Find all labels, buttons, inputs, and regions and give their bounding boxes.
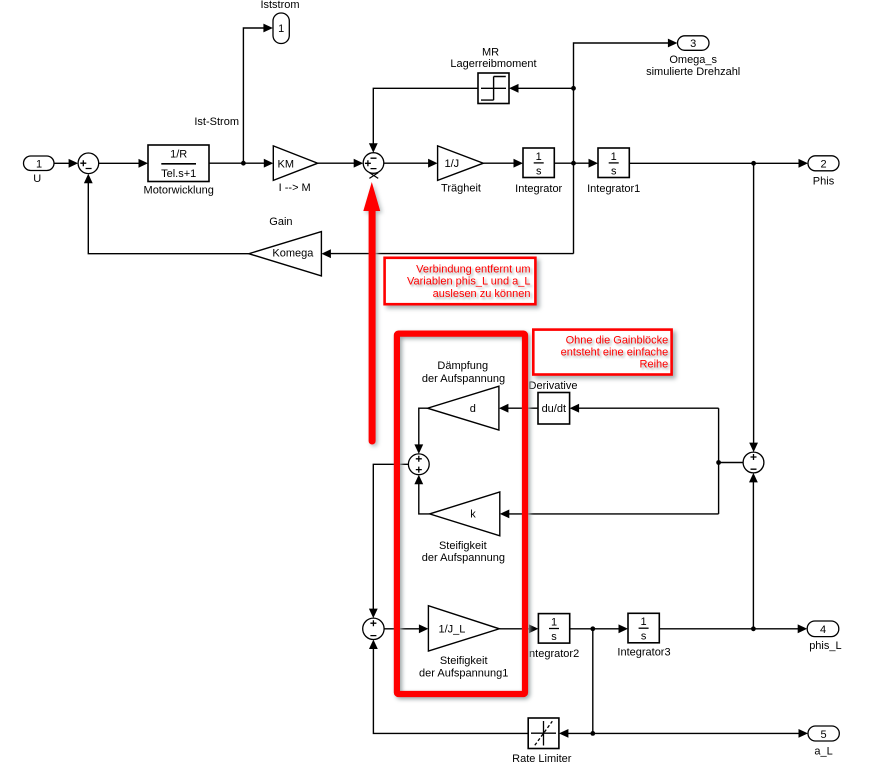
outport Iststrom	[260, 0, 299, 44]
transfer function Motorwicklung	[144, 145, 214, 197]
arrow into Iststrom port	[263, 24, 273, 33]
arrow into Integrator3	[619, 624, 629, 633]
svg-text:auslesen zu können: auslesen zu können	[433, 288, 531, 300]
svg-text:1: 1	[278, 23, 284, 35]
wire gain k output to sum3 bottom	[419, 482, 430, 514]
arrow into sum5 top	[749, 443, 758, 453]
wire U to sum1	[54, 162, 70, 164]
wire to port a_L	[593, 732, 801, 734]
wire sum5 output left	[719, 462, 744, 464]
svg-text:Integrator: Integrator	[515, 183, 562, 195]
svg-text:der Aufspannung: der Aufspannung	[422, 373, 505, 385]
svg-text:phis_L: phis_L	[809, 640, 841, 652]
arrow into sum1 left	[69, 159, 79, 168]
gain 1/J_L	[419, 606, 508, 680]
svg-text:s: s	[611, 165, 617, 177]
wire gain d output to sum3 top	[419, 408, 428, 446]
gain k Steifigkeit	[422, 492, 505, 564]
svg-text:1/R: 1/R	[170, 149, 187, 161]
inport 1 U	[24, 156, 55, 185]
wire 1/J to Integrator	[483, 162, 515, 164]
arrow into Motorwicklung	[139, 159, 149, 168]
wire to Rate Limiter input	[567, 732, 593, 734]
svg-text:Steifigkeit: Steifigkeit	[439, 540, 487, 552]
arrow into sum3 top	[414, 444, 423, 454]
ARROWHEADS	[69, 24, 808, 738]
svg-text:2: 2	[820, 159, 826, 171]
wire sum3 output to sum4 top	[373, 464, 408, 610]
svg-text:Motorwicklung: Motorwicklung	[144, 185, 214, 197]
svg-text:Reihe: Reihe	[640, 359, 669, 371]
sum block sum3	[408, 454, 429, 475]
svg-text:MR: MR	[482, 46, 499, 58]
gain KM	[273, 146, 317, 194]
wire vertical split for d and k	[718, 408, 720, 514]
svg-text:Omega_s: Omega_s	[669, 54, 717, 66]
wire Integrator1 to port Phis	[629, 162, 800, 164]
svg-text:Tel.s+1: Tel.s+1	[161, 168, 196, 180]
svg-text:1: 1	[36, 158, 42, 170]
svg-text:1/J: 1/J	[445, 158, 460, 170]
integrator Integrator1	[587, 148, 640, 195]
red arrow pointing to sum2	[363, 182, 380, 441]
wire MR output to sum2 top	[373, 88, 478, 145]
arrow into 1/J_L	[419, 624, 429, 633]
wire junction to Iststrom port	[243, 28, 264, 163]
svg-text:Rate Limiter: Rate Limiter	[512, 753, 572, 765]
svg-text:Derivative: Derivative	[529, 380, 578, 392]
arrow into gain d	[499, 404, 509, 413]
wire sum4 output to 1/J_L	[384, 628, 421, 630]
wire 1/J_L to Integrator2	[499, 628, 531, 630]
svg-text:Variablen phis_L und a_L: Variablen phis_L und a_L	[407, 276, 531, 288]
junction phis_L branch	[751, 626, 756, 631]
svg-text:Komega: Komega	[272, 247, 314, 259]
svg-text:U: U	[33, 173, 41, 185]
svg-text:3: 3	[690, 38, 696, 50]
red highlight rectangle around gain blocks	[397, 334, 525, 694]
wire sum2 to 1/J	[384, 162, 430, 164]
wire Motorwicklung to KM	[209, 162, 266, 164]
junction Ist-Strom	[241, 161, 246, 166]
sum block sum2	[363, 153, 384, 174]
svg-text:1/J_L: 1/J_L	[439, 624, 466, 636]
svg-text:Integrator2: Integrator2	[526, 648, 579, 660]
svg-text:1: 1	[536, 151, 542, 163]
svg-text:4: 4	[820, 624, 826, 636]
wire to Derivative input	[577, 407, 718, 409]
removed port x mark below sum2	[369, 173, 378, 179]
svg-text:Ohne die Gainblöcke: Ohne die Gainblöcke	[566, 334, 669, 346]
arrow into Rate Limiter	[559, 729, 569, 738]
outport 3 Omega_s	[646, 36, 740, 78]
svg-text:s: s	[536, 165, 542, 177]
arrow into sum2 top	[369, 143, 378, 153]
arrow into sum2 left	[354, 159, 364, 168]
svg-text:Trägheit: Trägheit	[441, 182, 481, 194]
wire feedback to Komega	[329, 253, 573, 255]
sum block sum4	[363, 618, 384, 639]
wire Integrator to Integrator1	[554, 162, 590, 164]
arrow into sum4 top	[369, 609, 378, 619]
junction trunk MR	[571, 86, 576, 91]
svg-text:Integrator1: Integrator1	[587, 183, 640, 195]
arrow into Integrator	[514, 159, 524, 168]
svg-text:Iststrom: Iststrom	[260, 0, 299, 11]
relay MR Lagerreibmoment	[450, 46, 536, 103]
derivative du/dt	[529, 380, 578, 424]
svg-text:Integrator3: Integrator3	[617, 647, 670, 659]
integrator Integrator2	[526, 614, 579, 661]
svg-text:a_L: a_L	[814, 745, 832, 757]
junction a_L branch	[590, 731, 595, 736]
arrow into MR relay	[509, 84, 519, 93]
annotation box Ohne die Gainbloecke	[533, 330, 671, 375]
svg-text:simulierte Drehzahl: simulierte Drehzahl	[646, 66, 740, 78]
svg-text:k: k	[470, 508, 476, 520]
svg-text:1: 1	[551, 616, 557, 628]
wire trunk vertical omega	[574, 43, 670, 254]
svg-text:entsteht eine einfache: entsteht eine einfache	[561, 347, 669, 359]
arrow into port Phis	[799, 159, 809, 168]
arrow into sum3 bottom	[414, 475, 423, 485]
svg-text:du/dt: du/dt	[542, 403, 566, 415]
junction Phis branch	[751, 161, 756, 166]
svg-text:KM: KM	[278, 158, 295, 170]
integrator Integrator	[515, 148, 562, 195]
arrow into KM	[264, 159, 274, 168]
svg-text:Gain: Gain	[269, 216, 292, 228]
svg-text:Ist-Strom: Ist-Strom	[194, 116, 239, 128]
wire KM to sum2	[318, 162, 356, 164]
svg-text:Lagerreibmoment: Lagerreibmoment	[450, 58, 536, 70]
wire to gain k input	[507, 513, 718, 515]
outport 2 Phis	[808, 156, 839, 188]
wire Derivative output to gain d	[507, 407, 539, 409]
arrow into port phis_L	[798, 624, 808, 633]
svg-text:Steifigkeit: Steifigkeit	[440, 655, 488, 667]
wire Phis branch down to sum5 top	[753, 163, 755, 444]
arrow into sum5 bottom	[749, 473, 758, 483]
rate limiter block	[512, 718, 572, 765]
wire Integrator2 branch down	[592, 629, 594, 734]
svg-text:1: 1	[641, 616, 647, 628]
junction trunk main	[571, 161, 576, 166]
arrow into gain k	[500, 510, 510, 519]
gain Komega	[249, 216, 322, 276]
arrow into Integrator1	[589, 159, 599, 168]
wire Komega output to sum1 bottom	[88, 181, 249, 254]
arrow into Derivative	[570, 404, 580, 413]
svg-text:5: 5	[821, 729, 827, 741]
sum block sum1	[78, 153, 99, 174]
wire phis_L branch up to sum5 bottom	[752, 481, 754, 629]
svg-text:I --> M: I --> M	[279, 182, 311, 194]
arrow into port a_L	[799, 729, 809, 738]
wire Integrator2 to Integrator3	[570, 628, 621, 630]
arrow into sum4 bottom	[369, 640, 378, 650]
wire Integrator3 to port phis_L	[659, 628, 799, 630]
outport 4 phis_L	[807, 621, 841, 652]
svg-text:s: s	[641, 631, 647, 643]
svg-text:Phis: Phis	[813, 175, 835, 187]
arrow into Komega	[321, 249, 331, 258]
gain 1/J Traegheit	[438, 146, 484, 195]
svg-text:d: d	[470, 403, 476, 415]
svg-text:1: 1	[611, 151, 617, 163]
integrator Integrator3	[617, 613, 670, 658]
gain d Daempfung	[422, 360, 505, 430]
svg-text:der Aufspannung: der Aufspannung	[422, 552, 505, 564]
wire Rate Limiter output to sum4 bottom	[373, 647, 528, 733]
junction sum5 output	[716, 460, 721, 465]
arrow into 1/J	[428, 159, 438, 168]
arrow into port Omega_s	[668, 39, 678, 48]
arrow into sum1 bottom	[84, 174, 93, 184]
arrow into Integrator2	[529, 624, 539, 633]
junction Integrator2 output	[590, 626, 595, 631]
wire trunk to MR relay	[517, 87, 574, 89]
sum block sum5	[743, 452, 764, 473]
annotation box Verbindung entfernt	[385, 258, 536, 304]
svg-text:Verbindung entfernt um: Verbindung entfernt um	[416, 263, 530, 275]
svg-text:der Aufspannung1: der Aufspannung1	[419, 667, 508, 679]
svg-text:s: s	[551, 631, 557, 643]
svg-text:Dämpfung: Dämpfung	[437, 360, 488, 372]
wire sum1 to Motorwicklung	[99, 162, 140, 164]
outport 5 a_L	[808, 726, 839, 757]
